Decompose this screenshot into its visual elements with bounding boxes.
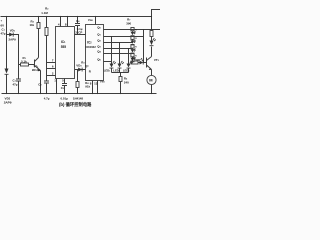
svg-text:1.1M: 1.1M [41, 11, 48, 15]
svg-text:4.7µ: 4.7µ [44, 97, 50, 101]
svg-text:CD4022: CD4022 [86, 45, 97, 49]
svg-text:9014: 9014 [32, 68, 39, 72]
svg-text:CP: CP [78, 31, 82, 35]
svg-text:6V: 6V [1, 24, 5, 28]
svg-text:2AP9: 2AP9 [9, 38, 17, 42]
svg-text:1N4148: 1N4148 [73, 97, 84, 101]
svg-text:555: 555 [61, 45, 67, 49]
svg-text:2AP9: 2AP9 [4, 101, 12, 105]
svg-text:13: 13 [94, 81, 98, 85]
svg-text:11k: 11k [30, 23, 35, 27]
svg-text:0.01µ: 0.01µ [61, 97, 69, 101]
svg-text:0.1µ: 0.1µ [77, 27, 83, 31]
svg-text:240: 240 [124, 80, 129, 84]
svg-text:47µ: 47µ [13, 82, 18, 86]
svg-text:+: + [1, 19, 3, 23]
svg-text:5.1k: 5.1k [21, 60, 27, 64]
svg-text:(b) 循环控制电路: (b) 循环控制电路 [59, 101, 92, 108]
svg-text:390: 390 [135, 58, 140, 62]
svg-text:47µ: 47µ [1, 32, 6, 36]
svg-text:390: 390 [126, 21, 131, 25]
